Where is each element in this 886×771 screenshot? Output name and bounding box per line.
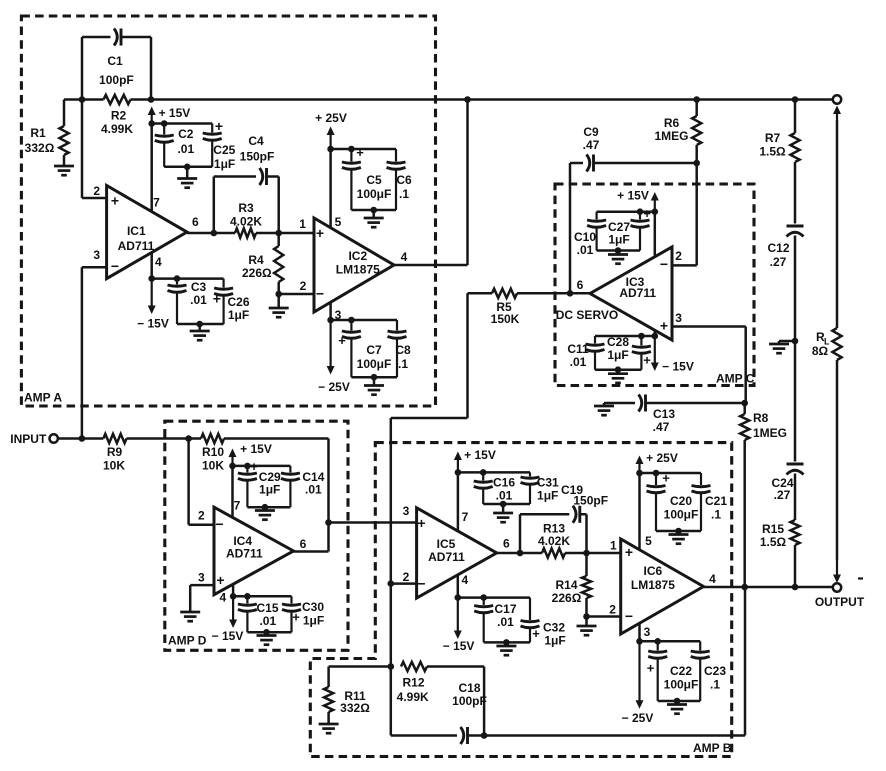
svg-text:100μF: 100μF: [357, 357, 392, 371]
svg-text:.01: .01: [570, 355, 587, 369]
svg-text:10K: 10K: [103, 459, 125, 473]
svg-text:.1: .1: [399, 187, 409, 201]
svg-text:−: −: [417, 576, 425, 592]
svg-text:7: 7: [234, 499, 241, 513]
svg-text:100μF: 100μF: [357, 187, 392, 201]
svg-text:6: 6: [503, 537, 510, 551]
svg-text:.01: .01: [496, 489, 513, 503]
svg-text:DC SERVO: DC SERVO: [556, 308, 618, 322]
svg-text:1μF: 1μF: [607, 348, 628, 362]
svg-text:R6: R6: [664, 116, 680, 130]
svg-text:.47: .47: [583, 138, 600, 152]
svg-text:C30: C30: [302, 600, 324, 614]
svg-text:C6: C6: [396, 173, 412, 187]
svg-text:R2: R2: [111, 109, 127, 123]
svg-text:1μF: 1μF: [608, 233, 629, 247]
svg-text:2: 2: [403, 570, 410, 584]
svg-text:1μF: 1μF: [303, 614, 324, 628]
svg-text:AD711: AD711: [619, 286, 656, 300]
svg-text:+: +: [292, 610, 300, 625]
svg-text:1μF: 1μF: [214, 157, 235, 171]
svg-text:1μF: 1μF: [537, 489, 558, 503]
svg-text:1.5Ω: 1.5Ω: [759, 145, 786, 159]
svg-text:AMP D: AMP D: [168, 634, 207, 648]
svg-text:R1: R1: [30, 126, 46, 140]
svg-text:C4: C4: [248, 134, 264, 148]
svg-text:AD711: AD711: [226, 547, 263, 561]
svg-text:6: 6: [192, 215, 199, 229]
svg-text:100pF: 100pF: [99, 73, 134, 87]
svg-text:R10: R10: [202, 445, 224, 459]
svg-text:1: 1: [299, 217, 306, 231]
svg-text:1MEG: 1MEG: [654, 129, 688, 143]
svg-text:150pF: 150pF: [240, 150, 275, 164]
svg-text:C18: C18: [458, 681, 480, 695]
svg-text:+ 25V: + 25V: [646, 451, 678, 465]
svg-text:C5: C5: [366, 173, 382, 187]
svg-text:C20: C20: [670, 494, 692, 508]
svg-text:AMP C: AMP C: [716, 372, 755, 386]
svg-text:+ 15V: + 15V: [240, 442, 272, 456]
svg-text:1MEG: 1MEG: [753, 426, 787, 440]
svg-text:R3: R3: [238, 201, 254, 215]
svg-text:.27: .27: [770, 255, 787, 269]
svg-text:+: +: [532, 626, 540, 641]
svg-text:R9: R9: [107, 445, 123, 459]
svg-text:226Ω: 226Ω: [552, 591, 582, 605]
svg-text:R12: R12: [402, 676, 424, 690]
svg-text:4: 4: [219, 591, 226, 605]
svg-text:2: 2: [93, 184, 100, 198]
svg-text:.01: .01: [259, 614, 276, 628]
svg-text:.01: .01: [305, 483, 322, 497]
svg-text:+: +: [215, 118, 223, 134]
svg-text:3: 3: [93, 248, 100, 262]
svg-text:− 15V: − 15V: [443, 639, 475, 653]
svg-text:.01: .01: [577, 243, 594, 257]
svg-text:AMP A: AMP A: [24, 391, 62, 405]
svg-text:C10: C10: [574, 230, 596, 244]
svg-text:+: +: [417, 515, 425, 531]
svg-text:+: +: [625, 544, 633, 560]
svg-text:.01: .01: [497, 615, 514, 629]
svg-text:+: +: [316, 225, 324, 241]
svg-text:C28: C28: [607, 335, 629, 349]
svg-text:+ 15V: + 15V: [159, 106, 191, 120]
svg-text:100μF: 100μF: [664, 678, 699, 692]
svg-text:IC2: IC2: [348, 249, 367, 263]
svg-text:5: 5: [335, 215, 342, 229]
svg-text:INPUT: INPUT: [10, 432, 47, 446]
svg-text:7: 7: [462, 510, 469, 524]
svg-text:AD711: AD711: [428, 550, 465, 564]
svg-text:C8: C8: [395, 343, 411, 357]
svg-text:C15: C15: [256, 601, 278, 615]
svg-text:C23: C23: [704, 664, 726, 678]
svg-text:+: +: [213, 291, 221, 307]
svg-text:10K: 10K: [202, 459, 224, 473]
svg-text:LM1875: LM1875: [336, 263, 380, 277]
svg-text:6: 6: [577, 278, 584, 292]
svg-text:4: 4: [155, 255, 162, 269]
svg-text:+: +: [643, 206, 651, 221]
svg-text:C13: C13: [653, 407, 675, 421]
svg-text:7: 7: [153, 196, 160, 210]
svg-text:C32: C32: [543, 621, 565, 635]
svg-text:4.99K: 4.99K: [397, 690, 429, 704]
svg-text:C25: C25: [213, 143, 235, 157]
svg-text:−: −: [215, 516, 223, 532]
svg-text:C31: C31: [537, 476, 559, 490]
svg-text:2: 2: [675, 249, 682, 263]
svg-text:+: +: [216, 572, 224, 588]
svg-text:.01: .01: [177, 142, 194, 156]
svg-text:C3: C3: [191, 280, 207, 294]
svg-text:C16: C16: [493, 476, 515, 490]
svg-text:OUTPUT: OUTPUT: [815, 595, 865, 609]
svg-text:C22: C22: [670, 664, 692, 678]
svg-text:+ 15V: + 15V: [464, 448, 496, 462]
svg-text:− 15V: − 15V: [662, 360, 694, 374]
svg-text:1: 1: [610, 539, 617, 553]
svg-text:−: −: [316, 286, 324, 302]
svg-text:− 15V: − 15V: [137, 317, 169, 331]
svg-text:R15: R15: [762, 522, 784, 536]
svg-text:3: 3: [403, 504, 410, 518]
svg-text:C1: C1: [107, 54, 123, 68]
svg-text:1μF: 1μF: [544, 634, 565, 648]
svg-text:5: 5: [645, 534, 652, 548]
svg-text:1μF: 1μF: [228, 308, 249, 322]
svg-text:+ 25V: + 25V: [315, 111, 347, 125]
svg-text:C26: C26: [227, 295, 249, 309]
svg-text:−: −: [660, 256, 668, 272]
svg-text:4: 4: [462, 573, 469, 587]
svg-text:2: 2: [300, 279, 307, 293]
svg-text:150K: 150K: [491, 312, 520, 326]
svg-text:− 25V: − 25V: [622, 711, 654, 725]
svg-text:6: 6: [300, 537, 307, 551]
svg-text:C21: C21: [705, 494, 727, 508]
svg-text:+: +: [338, 333, 346, 348]
svg-text:4.02K: 4.02K: [538, 534, 570, 548]
svg-text:.01: .01: [190, 293, 207, 307]
svg-text:4.99K: 4.99K: [101, 122, 133, 136]
svg-text:C12: C12: [767, 241, 789, 255]
svg-text:.1: .1: [398, 357, 408, 371]
svg-text:+: +: [111, 193, 119, 209]
svg-text:332Ω: 332Ω: [340, 701, 370, 715]
svg-text:C2: C2: [178, 127, 194, 141]
svg-text:− 25V: − 25V: [318, 380, 350, 394]
svg-text:− 15V: − 15V: [212, 629, 244, 643]
svg-text:+: +: [660, 318, 668, 334]
svg-text:2: 2: [198, 509, 205, 523]
svg-text:150pF: 150pF: [573, 494, 608, 508]
svg-text:.27: .27: [774, 488, 791, 502]
svg-text:IC6: IC6: [644, 564, 663, 578]
svg-text:3: 3: [675, 311, 682, 325]
svg-text:IC1: IC1: [127, 224, 146, 238]
svg-text:3: 3: [198, 571, 205, 585]
svg-text:IC5: IC5: [437, 537, 456, 551]
svg-text:1.5Ω: 1.5Ω: [760, 535, 787, 549]
svg-text:R4: R4: [248, 253, 264, 267]
svg-text:+: +: [643, 353, 651, 368]
svg-text:−: −: [111, 258, 119, 274]
svg-text:3: 3: [335, 308, 342, 322]
svg-text:.47: .47: [653, 420, 670, 434]
svg-text:+ 15V: + 15V: [617, 189, 649, 203]
svg-text:1μF: 1μF: [259, 483, 280, 497]
svg-text:.1: .1: [711, 508, 721, 522]
svg-text:100pF: 100pF: [452, 694, 487, 708]
svg-text:C17: C17: [494, 602, 516, 616]
svg-text:332Ω: 332Ω: [25, 141, 55, 155]
svg-text:+: +: [356, 145, 364, 160]
svg-text:AD711: AD711: [118, 239, 155, 253]
svg-text:8Ω: 8Ω: [812, 344, 829, 358]
svg-text:4.02K: 4.02K: [230, 215, 262, 229]
svg-text:R14: R14: [555, 578, 577, 592]
svg-text:−: −: [625, 608, 633, 624]
svg-text:+: +: [662, 471, 670, 486]
svg-text:C9: C9: [583, 125, 599, 139]
svg-text:226Ω: 226Ω: [242, 266, 272, 280]
svg-text:LM1875: LM1875: [631, 578, 675, 592]
svg-text:C7: C7: [366, 343, 382, 357]
svg-text:+: +: [250, 459, 258, 474]
svg-text:100μF: 100μF: [664, 508, 699, 522]
svg-text:C11: C11: [567, 342, 589, 356]
svg-text:R7: R7: [765, 131, 781, 145]
svg-text:R8: R8: [753, 411, 769, 425]
svg-text:3: 3: [644, 625, 651, 639]
svg-text:AMP B: AMP B: [693, 741, 732, 755]
svg-text:4: 4: [709, 572, 716, 586]
svg-text:+: +: [647, 661, 655, 676]
svg-text:4: 4: [401, 250, 408, 264]
svg-text:.1: .1: [710, 678, 720, 692]
svg-text:2: 2: [609, 603, 616, 617]
